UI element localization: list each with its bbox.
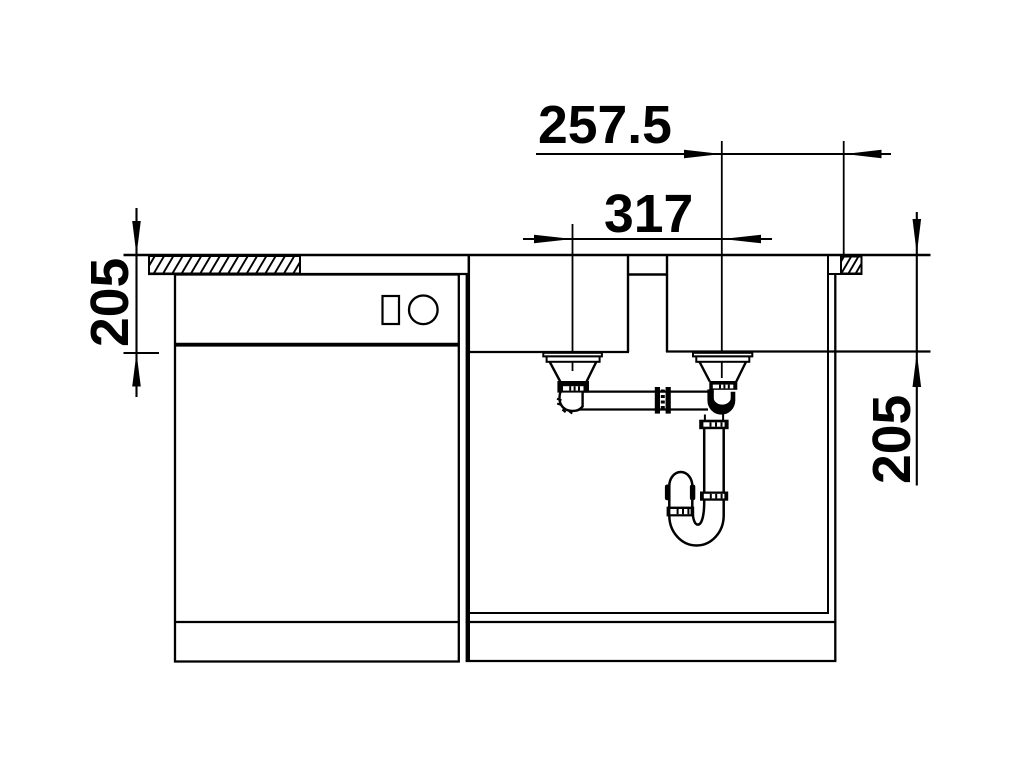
dimension 205 right arrow down — [913, 219, 922, 254]
sink cabinet left wall thick — [466, 273, 470, 661]
dishwasher control knob circle — [409, 296, 438, 325]
svg-text:317: 317 — [604, 185, 693, 244]
left bowl right wall — [627, 255, 629, 352]
sink cabinet inner right wall — [827, 255, 829, 613]
trap vertical pipe short neck — [705, 415, 723, 421]
dishwasher cabinet outline — [175, 275, 459, 662]
dishwasher control rectangle — [383, 296, 400, 324]
dimension 205 right arrow up — [913, 353, 922, 388]
horizontal waste pipe top line — [584, 391, 709, 393]
sink cabinet inner bottom line — [470, 612, 830, 614]
right drain flange step 1 — [693, 353, 752, 357]
svg-text:257.5: 257.5 — [538, 96, 672, 155]
left bowl left wall — [468, 255, 471, 352]
dishwasher plinth line — [174, 621, 460, 623]
countertop top surface line — [124, 254, 931, 256]
countertop hatched block right border — [841, 257, 862, 274]
dimension 317 arrow right — [723, 235, 762, 243]
left bowl bottom — [468, 351, 630, 353]
left drain elbow cup — [559, 391, 582, 411]
right drain tailpiece nut — [709, 381, 737, 390]
right bowl bottom and extension line — [666, 350, 931, 352]
right bowl left wall — [666, 255, 668, 352]
trap joint ribbed band — [667, 507, 695, 517]
trap S-bend outline — [669, 429, 723, 546]
right drain socket cup — [707, 389, 735, 414]
dimension 317 line — [523, 238, 772, 240]
svg-text:205: 205 — [81, 258, 140, 347]
dimension 257.5 arrow right — [845, 150, 882, 158]
left drain funnel right side — [587, 362, 597, 382]
countertop bottom line right section — [827, 273, 863, 275]
dimension 257.5 line — [536, 153, 891, 155]
dimension 205 right line — [916, 212, 918, 486]
sink cabinet right wall — [834, 274, 836, 661]
countertop hatched section left — [143, 254, 314, 276]
dimension 257.5 arrow left — [684, 150, 722, 158]
left drain tailpiece nut — [557, 381, 589, 393]
right drain funnel right side — [736, 362, 746, 382]
svg-text:205: 205 — [863, 395, 922, 484]
left drain funnel left side — [550, 362, 560, 382]
right drain funnel left side — [700, 362, 710, 382]
bowls divider bridge line — [627, 273, 668, 275]
dimension 205 left arrow up — [132, 353, 141, 387]
sink cabinet bottom line — [466, 660, 837, 662]
trap coupling on vertical pipe — [700, 492, 728, 501]
left drain joint ticks — [557, 399, 572, 414]
trap coupling below socket — [699, 420, 728, 430]
countertop hatched block right — [832, 254, 874, 277]
extension line counter right edge — [843, 141, 845, 255]
sink cabinet plinth line — [466, 621, 837, 623]
trap loop side nut right — [690, 485, 695, 501]
dishwasher control panel bottom thick line — [174, 343, 460, 347]
pipe union coupling — [655, 387, 671, 414]
dimension 205 left line — [135, 208, 137, 397]
extension line right bowl centerline — [721, 141, 723, 378]
dimension 205 left arrow down — [132, 221, 141, 255]
extension line left bowl centerline — [572, 224, 574, 371]
countertop hatched section left border — [149, 256, 300, 274]
countertop bottom line left section — [148, 273, 470, 275]
left drain flange step 1 — [543, 353, 602, 357]
trap loop side nut left — [665, 485, 670, 501]
dimension 205 left bottom tick — [124, 352, 160, 354]
right drain flange step 2 — [696, 356, 749, 361]
dimension 317 arrow left — [534, 235, 573, 243]
horizontal waste pipe bottom line — [578, 408, 708, 410]
left drain flange step 2 — [547, 356, 600, 361]
